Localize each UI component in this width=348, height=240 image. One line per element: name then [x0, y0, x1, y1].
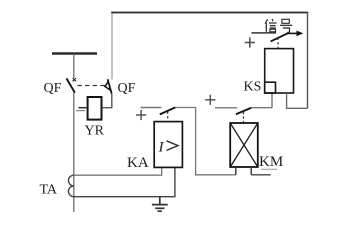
- signal relay KS coil: [265, 49, 294, 93]
- KS coil indicator square: [265, 82, 276, 93]
- wire: KM contact to KS coil: [251, 107, 272, 109]
- KS coil left terminal stub: [271, 93, 273, 108]
- mechanical link signal contact to KS coil: [277, 38, 279, 49]
- wire: primary feeder below QF down to bottom: [73, 93, 75, 212]
- signal arrow: [287, 32, 298, 34]
- wire: busbar drop to QF main contact: [73, 54, 75, 78]
- mechanical link KM contact to KM coil: [243, 112, 245, 123]
- negative supply tick: [76, 110, 85, 112]
- current transformer TA secondary winding: [68, 175, 73, 197]
- svg-text:YR: YR: [85, 124, 105, 139]
- QF auxiliary contact arrowhead: [105, 82, 111, 91]
- wire: KM coil return stub: [251, 174, 271, 176]
- wire: trip circuit right riser: [307, 13, 309, 109]
- svg-text:QF: QF: [118, 81, 136, 96]
- busbar: [52, 52, 97, 54]
- circuit breaker QF main contact blade: [67, 78, 75, 92]
- positive supply + for KM contact branch: [205, 95, 215, 105]
- grey underline below KM: [261, 168, 277, 170]
- mechanical link KA contact to KA coil: [167, 112, 169, 122]
- svg-text:KA: KA: [127, 155, 149, 171]
- wire: YR negative lead: [78, 107, 87, 109]
- overcurrent relay KA coil: [154, 122, 182, 168]
- svg-text:I: I: [158, 139, 165, 155]
- KA contact fixed lead: [141, 107, 162, 109]
- ground: [152, 197, 168, 212]
- wire: TA lower secondary lead to KA coil return: [74, 167, 175, 196]
- svg-text:KM: KM: [259, 154, 283, 170]
- svg-text:QF: QF: [44, 81, 62, 96]
- wire: KA contact to KM coil: [175, 108, 236, 175]
- KA contact blade: [160, 107, 176, 114]
- svg-text:KS: KS: [244, 79, 262, 94]
- KM coil terminal stubs: [236, 167, 251, 175]
- signal contact blade: [271, 33, 289, 42]
- positive supply + for KA contact branch: [136, 110, 146, 120]
- wire: QF auxiliary contact to YR coil: [102, 94, 112, 108]
- wire: TA upper secondary lead to KA coil: [74, 167, 162, 175]
- KM contact blade: [236, 108, 251, 115]
- wire: trip circuit riser to QF auxiliary contact: [111, 13, 113, 80]
- positive supply + for signal branch: [245, 37, 255, 47]
- mechanical linkage dashed line between QF contacts: [78, 85, 105, 87]
- label 信号 (signal) drawn as strokes: [265, 19, 292, 32]
- svg-text:TA: TA: [40, 183, 58, 198]
- trip coil YR: [88, 97, 102, 120]
- QF auxiliary contact blade: [108, 79, 112, 94]
- intermediate relay KM coil: [230, 123, 258, 167]
- KM contact fixed lead: [215, 107, 237, 109]
- QF breaker x marker: [73, 78, 76, 81]
- signal contact fixed lead: [252, 32, 277, 34]
- wire: trip circuit top rail: [111, 12, 308, 14]
- wire: KS coil right terminal to riser: [287, 93, 308, 108]
- KM coil cross: [230, 123, 258, 167]
